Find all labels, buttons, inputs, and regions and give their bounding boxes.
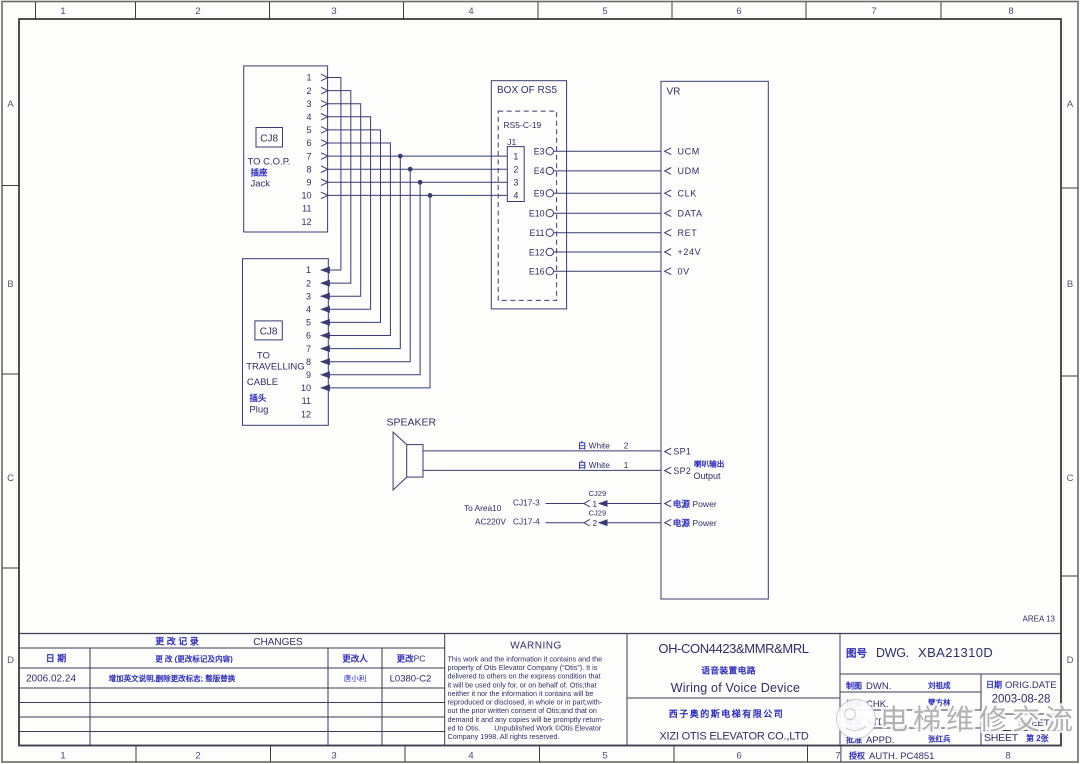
svg-text:OH-CON4423&MMR&MRL: OH-CON4423&MMR&MRL [658,641,808,656]
svg-text:DWN.: DWN. [866,681,891,692]
svg-text:更改PC: 更改PC [397,654,426,664]
svg-text:delivered to others on the exp: delivered to others on the express condi… [448,672,601,681]
svg-text:5: 5 [602,6,607,17]
connector CJ8 TO TRAVELLING CABLE Plug - body [243,259,329,426]
wire CJ8 top pin 5 to CJ8 bottom pin 5 [328,130,381,323]
svg-text:VR: VR [667,87,681,98]
otis block inner divider [627,697,840,699]
svg-text:1: 1 [306,73,311,83]
wire E10 to VR DATA [554,212,662,214]
wire speaker + to VR SP1 [423,450,661,452]
svg-text:2: 2 [593,518,598,528]
svg-text:Wiring of Voice Device: Wiring of Voice Device [671,681,800,695]
VR pin chevron CLK [665,190,672,197]
svg-text:C: C [1067,473,1074,484]
terminal E11 circle [546,229,553,236]
svg-text:XIZI OTIS ELEVATOR CO.,LTD: XIZI OTIS ELEVATOR CO.,LTD [659,731,808,743]
connector CJ8 TO C.O.P. Jack - body [244,66,328,232]
wire VR power to CJ29 pin 2 [607,522,661,524]
svg-text:To Area10: To Area10 [464,503,502,513]
svg-text:2006.02.24: 2006.02.24 [26,674,76,685]
svg-text:2: 2 [306,86,311,96]
svg-text:B: B [1067,279,1073,290]
svg-text:E11: E11 [530,228,545,238]
svg-text:6: 6 [306,138,311,148]
wire E4 to VR UDM [554,170,662,172]
svg-text:AUTH. PC4851: AUTH. PC4851 [869,751,934,762]
svg-text:11: 11 [302,204,311,214]
svg-text:唐小利: 唐小利 [344,673,367,683]
svg-text:CJ8: CJ8 [260,134,278,145]
svg-text:白 White: 白 White [578,440,610,450]
svg-text:1: 1 [306,265,311,275]
svg-text:图号: 图号 [846,648,867,660]
terminal E4 circle [546,167,553,174]
svg-text:电源 Power: 电源 Power [673,517,717,528]
wire E11 to VR RET [554,232,662,234]
svg-text:5: 5 [306,318,311,328]
arrowhead into CJ29 pin 1 [599,501,608,507]
VR pin chevron SP2 [665,467,672,474]
svg-text:CJ8: CJ8 [260,327,278,338]
right margin row dividers [1061,187,1078,189]
wire branch junction to CJ8 bottom pin 9 [330,182,421,374]
junction node pin 8 [408,167,413,172]
speaker symbol horn [393,432,407,490]
svg-text:Output: Output [694,471,722,481]
svg-text:8: 8 [306,357,311,367]
wire CJ8 top pin 8 to J1 pin 2 [328,168,508,170]
svg-text:CLK: CLK [678,189,697,199]
changes table column dividers [89,648,91,746]
wire E9 to VR CLK [554,192,662,194]
svg-text:L0380-C2: L0380-C2 [390,674,432,685]
changes table right edge / warning divider [444,634,446,746]
wire CJ8 top pin 2 to CJ8 bottom pin 2 [328,91,351,284]
terminal E9 circle [546,190,553,197]
svg-text:C: C [7,473,14,484]
svg-text:更 改 记 录: 更 改 记 录 [155,636,199,647]
VR pin chevron UCM [665,148,672,155]
wire CJ8 top pin 10 to J1 pin 4 [328,194,508,196]
svg-text:6: 6 [736,751,741,762]
svg-text:2: 2 [195,751,200,762]
arrowhead into CJ29 pin 2 [599,520,608,526]
svg-text:CJ17-4: CJ17-4 [513,517,540,527]
terminal E16 circle [546,268,553,275]
svg-text:WARNING: WARNING [510,641,561,652]
VR pin chevron 0V [665,268,672,275]
svg-text:E9: E9 [534,189,545,199]
svg-text:增加英文说明,删除更改标志; 整版替换: 增加英文说明,删除更改标志; 整版替换 [109,673,236,683]
left margin row dividers [2,185,19,187]
svg-text:XBA21310D: XBA21310D [918,645,993,660]
wire CJ8 top pin 1 to CJ8 bottom pin 1 [328,78,341,271]
warning / otis block divider [626,634,628,746]
wire CJ17-4 to connector CJ29 pin 2 [546,522,584,524]
svg-text:6: 6 [736,6,741,17]
svg-text:7: 7 [306,151,311,161]
junction node pin 10 [428,193,433,198]
svg-text:刘祖成: 刘祖成 [928,680,951,690]
svg-text:AREA 13: AREA 13 [1023,615,1056,624]
svg-text:Jack: Jack [251,179,271,190]
VR pin chevron UDM [665,168,672,175]
svg-text:8: 8 [306,164,311,174]
wire branch junction to CJ8 bottom pin 10 [330,195,430,388]
wire CJ8 top pin 9 to J1 pin 3 [328,181,508,183]
changes table row lines [19,667,445,669]
svg-text:CJ29: CJ29 [589,489,607,498]
changes table header row line [19,647,445,649]
drawing number row line [840,673,1061,675]
sheet row line [981,730,1061,732]
svg-text:9: 9 [306,370,311,380]
RS5-C-19 dashed module outline [498,111,556,300]
svg-text:SP2: SP2 [673,466,691,476]
VR pin chevron +24V [665,249,672,256]
wire CJ8 top pin 3 to CJ8 bottom pin 3 [328,104,361,297]
svg-text:3: 3 [331,751,336,762]
svg-text:E4: E4 [534,166,545,176]
junction node pin 9 [418,180,423,185]
title block top line [19,633,1061,635]
VR unit body [661,81,768,599]
svg-text:10: 10 [301,383,311,393]
svg-text:SP1: SP1 [673,447,691,457]
VR pin chevron SP1 [665,448,672,455]
svg-text:B: B [7,279,13,290]
svg-text:1: 1 [513,151,518,161]
svg-text:SPEAKER: SPEAKER [387,417,437,429]
svg-text:1: 1 [60,6,65,17]
svg-text:J1: J1 [507,137,516,147]
svg-text:更改人: 更改人 [342,654,368,664]
terminal E12 circle [546,248,553,255]
svg-text:白 White: 白 White [578,460,610,470]
svg-text:12: 12 [301,409,311,419]
bottom border column dividers [135,746,137,763]
svg-text:3: 3 [331,6,336,17]
svg-text:8: 8 [1008,6,1013,17]
signature rows lines [840,691,981,693]
sheets row line [981,713,1061,715]
svg-text:2: 2 [624,440,629,450]
wire E12 to VR +24V [554,251,662,253]
svg-text:4: 4 [306,305,311,315]
svg-text:Company 1998. All rights rese: Company 1998. All rights reserved. [448,732,560,741]
wire speaker - to VR SP2 [423,469,661,471]
svg-text:制图: 制图 [846,681,862,691]
connector CJ29 pin 1 chevron [584,500,590,507]
svg-text:AC220V: AC220V [475,517,506,527]
svg-text:A: A [1067,99,1074,110]
svg-text:1: 1 [60,751,65,762]
svg-text:demand it and any copies will: demand it and any copies will be promptl… [448,715,605,724]
svg-text:RS5-C-19: RS5-C-19 [504,120,542,130]
svg-text:日 期: 日 期 [46,653,67,664]
svg-text:TRAVELLING: TRAVELLING [246,362,304,373]
VR pin chevron power 2 [665,519,672,526]
svg-text:西 子 奥 的 斯 电 梯 有 限 公 司: 西 子 奥 的 斯 电 梯 有 限 公 司 [669,708,783,719]
terminal E10 circle [546,210,553,217]
wire CJ17-3 to connector CJ29 pin 1 [546,503,584,505]
svg-text:3: 3 [306,99,311,109]
connector CJ29 pin 2 chevron [584,519,590,526]
svg-text:9: 9 [306,178,311,188]
svg-text:DATA: DATA [678,208,703,218]
svg-text:7: 7 [835,751,840,762]
svg-text:8: 8 [1005,751,1010,762]
svg-text:更 改 (更改标记及内容): 更 改 (更改标记及内容) [155,653,233,663]
connector CJ8 (top) label box [256,128,283,148]
svg-text:A: A [7,99,14,110]
svg-text:E12: E12 [529,247,545,257]
svg-text:2: 2 [513,164,518,174]
BOX OF RS5 enclosure [491,81,566,309]
svg-text:7: 7 [871,6,876,17]
watermark logo circle [837,700,876,739]
svg-text:11: 11 [302,396,311,406]
svg-text:2: 2 [195,6,200,17]
svg-text:3: 3 [306,291,311,301]
connector J1 body [507,147,524,202]
wire CJ8 top pin 6 to CJ8 bottom pin 6 [328,143,391,336]
svg-text:0V: 0V [678,266,690,276]
svg-text:D: D [7,655,14,666]
svg-text:4: 4 [306,112,311,122]
svg-text:CJ29: CJ29 [589,508,607,517]
connector CJ8 (top) pin chevrons [321,74,328,81]
svg-text:D: D [1067,655,1074,666]
svg-text:DWG.: DWG. [876,646,909,660]
VR pin chevron DATA [665,210,672,217]
connector CJ8 (bottom) pin numbers 1-12 [301,265,311,419]
svg-text:3: 3 [513,178,518,188]
wire CJ8 top pin 4 to CJ8 bottom pin 4 [328,117,371,309]
VR pin chevron RET [665,229,672,236]
svg-text:E3: E3 [534,147,545,157]
svg-text:E10: E10 [529,209,545,219]
signature column / date column divider [980,674,982,746]
svg-text:5: 5 [602,751,607,762]
wire E16 to VR 0V [554,270,662,272]
connector CJ8 (top) pin numbers 1-12 [301,73,311,227]
svg-text:+24V: +24V [678,247,702,257]
svg-text:CHANGES: CHANGES [253,637,303,648]
svg-text:5: 5 [306,125,311,135]
junction node pin 7 [398,154,403,159]
svg-text:7: 7 [306,344,311,354]
svg-text:4: 4 [468,6,473,17]
svg-text:6: 6 [306,331,311,341]
svg-text:喇叭输出: 喇叭输出 [694,459,724,469]
terminal E3 circle [546,148,553,155]
changes table bottom line [19,745,1061,747]
svg-text:12: 12 [301,217,311,227]
svg-text:授权: 授权 [849,751,866,761]
top border column dividers [35,2,37,19]
svg-text:插座: 插座 [251,168,269,178]
svg-text:日期: 日期 [986,680,1002,690]
speaker symbol driver box [407,445,423,478]
svg-text:E16: E16 [529,267,545,277]
svg-text:BOX OF RS5: BOX OF RS5 [497,85,557,96]
wire E3 to VR UCM [554,150,662,152]
wire branch junction to CJ8 bottom pin 7 [330,156,401,349]
svg-text:1: 1 [624,460,629,470]
VR pin chevron power 1 [665,500,672,507]
svg-text:电源 Power: 电源 Power [673,498,717,509]
svg-text:TO: TO [257,351,270,362]
svg-text:UDM: UDM [678,166,700,176]
svg-text:CABLE: CABLE [247,377,278,388]
connector CJ8 (bottom) label box [255,321,282,340]
svg-text:张红兵: 张红兵 [928,734,951,744]
svg-text:10: 10 [301,191,311,201]
svg-text:UCM: UCM [678,146,700,156]
svg-text:4: 4 [468,751,473,762]
svg-text:4: 4 [513,191,518,201]
svg-text:2: 2 [306,278,311,288]
svg-text:语音装置电路: 语音装置电路 [701,665,756,676]
connector CJ8 (bottom) pin arrowheads [321,267,330,273]
svg-text:1: 1 [593,499,598,509]
connector J1 pin numbers 1-4 [513,151,518,200]
wire branch junction to CJ8 bottom pin 8 [330,169,411,362]
svg-text:APPD.: APPD. [866,735,895,746]
svg-text:插头: 插头 [249,393,267,403]
svg-text:RET: RET [678,228,698,238]
row AUTH authorization in bottom strip [840,746,842,763]
svg-text:Plug: Plug [249,405,268,416]
svg-text:ORIG.DATE: ORIG.DATE [1005,680,1057,691]
wire VR power to CJ29 pin 1 [607,503,661,505]
svg-text:CJ17-3: CJ17-3 [513,498,540,508]
warning block body text [448,655,605,742]
wire CJ8 top pin 7 to J1 pin 1 [328,155,508,157]
svg-text:TO C.O.P.: TO C.O.P. [248,157,291,168]
otis / number block divider [839,634,841,746]
svg-text:电梯维修交流: 电梯维修交流 [880,704,1078,735]
